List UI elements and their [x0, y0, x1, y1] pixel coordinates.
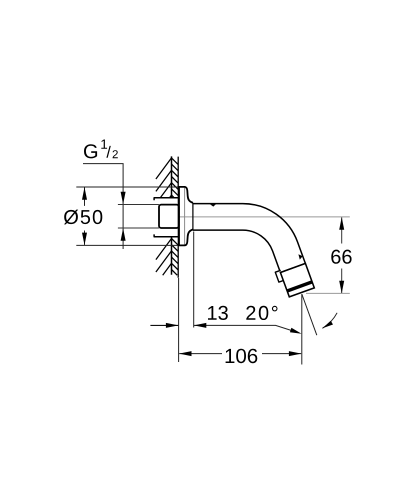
G1/2 extension top [118, 204, 159, 206]
20 deg angle arc [322, 313, 337, 329]
106 dimension line [179, 353, 301, 355]
66 dimension line [341, 217, 343, 293]
106 right extension / angle vertex line [301, 294, 303, 364]
66 arrow down [339, 281, 344, 294]
wall hole bottom edge [154, 234, 179, 236]
tube inner outline [193, 230, 281, 272]
flange face against wall [178, 186, 180, 246]
centerline (gray) [179, 216, 350, 218]
aerator side tab [275, 270, 284, 282]
label 106 [226, 349, 258, 364]
G1/2 arrow down [121, 192, 126, 205]
Phi50 arrow down [82, 233, 87, 246]
wall hole top edge [154, 198, 179, 200]
G1/2 arrow up [121, 228, 126, 241]
flange rim gray line [184, 188, 186, 245]
label G 1/2 [84, 144, 97, 158]
Phi50 arrow up [82, 187, 87, 200]
angle arc arrow [322, 321, 333, 329]
tube outer outline [193, 204, 306, 264]
106 arrow right [289, 351, 302, 356]
13 dimension line left tail [150, 324, 178, 326]
wall face line [177, 157, 179, 278]
wall spine line [171, 156, 173, 274]
aerator body [280, 263, 314, 297]
seam mark on tube top [210, 204, 216, 207]
label 13 [208, 306, 228, 320]
label Phi50 [64, 210, 102, 225]
20 deg leader arrow [290, 328, 302, 334]
seam mark on outer curve [298, 254, 302, 259]
extension line Phi50 top [76, 186, 179, 188]
flange top profile [179, 187, 193, 203]
G1/2 extension bottom [118, 227, 159, 229]
20 deg slant line [302, 294, 317, 335]
aerator top edge [280, 263, 305, 272]
wall hatching [156, 158, 178, 275]
13 arrow left [194, 323, 207, 328]
aerator ring band [287, 280, 313, 292]
extension line Phi50 bottom [76, 244, 179, 246]
flange bottom profile [179, 229, 193, 245]
66 bottom extension [306, 292, 350, 294]
G1/2 leader [83, 164, 123, 249]
66 arrow up [339, 217, 344, 230]
13 arrow right [166, 323, 179, 328]
13 right extension [193, 232, 195, 328]
label 66 [331, 250, 351, 264]
neck edge [192, 203, 194, 230]
Phi50 dimension line [84, 187, 86, 245]
nipple G1/2 inlet [159, 205, 179, 228]
106 arrow left [179, 351, 192, 356]
106/13 left extension [178, 278, 180, 362]
label 20 deg [246, 306, 277, 320]
13 dimension line right tail / 20 deg leader [194, 325, 292, 330]
